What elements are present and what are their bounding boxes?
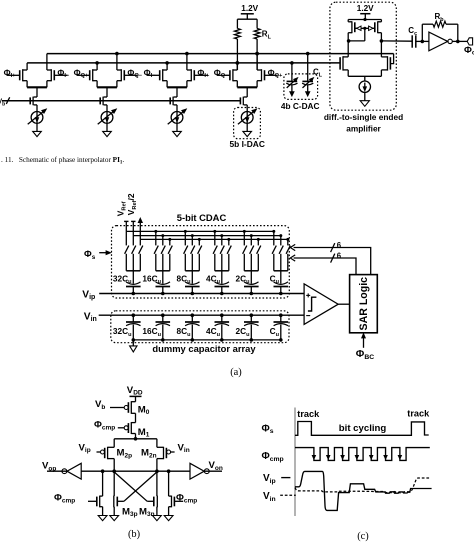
svg-text:track: track <box>407 408 430 418</box>
svg-text:ΦI+: ΦI+ <box>4 67 17 79</box>
svg-text:(b): (b) <box>128 529 140 540</box>
CDAC cell 16Cu with 3 switches and capacitor <box>154 230 172 295</box>
label 4Cu <box>206 273 221 285</box>
time axis <box>294 408 296 517</box>
dummy capacitor array dashed box <box>111 311 289 343</box>
third reference line with up arrow <box>138 218 142 239</box>
waveform Phi_cmp with sampling arrows <box>295 448 430 461</box>
svg-text:M3n: M3n <box>139 506 155 518</box>
amp output wire <box>381 40 412 42</box>
node wire V_ip <box>99 293 304 295</box>
svg-text:32Cu: 32Cu <box>113 326 132 338</box>
ground 2 <box>110 516 119 521</box>
SAR feedback wire upper (6-bit) <box>290 241 370 274</box>
label (b) <box>128 529 140 540</box>
comparator U4 <box>304 284 338 325</box>
CDAC cell 32Cu with 3 switches and capacitor <box>125 231 143 295</box>
svg-text:2Cu: 2Cu <box>235 326 250 338</box>
waveform Phi_s <box>295 422 429 436</box>
reset switch right (Phi_cmp) <box>169 471 198 515</box>
svg-text:8Cu: 8Cu <box>176 326 191 338</box>
svg-text:4Cu: 4Cu <box>206 273 221 285</box>
gate label I+ <box>4 67 17 79</box>
SAR feedback wire lower (6-bit) <box>290 252 356 275</box>
gate label Q&#8722; <box>127 67 142 79</box>
bus wire V_Ref <box>126 230 274 232</box>
label RL <box>262 30 272 41</box>
label bit cycling <box>339 423 387 434</box>
svg-text:bit cycling: bit cycling <box>339 423 387 434</box>
supply 1.2V <box>237 4 258 19</box>
output inverter right (V_on) <box>190 460 223 479</box>
bias line V_b with bus slash <box>0 97 240 107</box>
svg-text:amplifier: amplifier <box>346 124 381 134</box>
svg-text:ΦQ−: ΦQ− <box>127 67 142 79</box>
label (c) <box>357 531 369 542</box>
amp tail bar and current source <box>348 76 381 100</box>
differential pair M2 (Q+/Q&#8722;) with tail transistor and variable current source I2 <box>77 52 138 137</box>
resistor RL left <box>234 19 240 70</box>
waveform V_ip (solid) <box>295 471 432 510</box>
transistor M0 (PMOS, gate V_b) <box>95 399 150 423</box>
diff-to-single-ended amplifier dashed box <box>330 2 396 110</box>
svg-text:Φs: Φs <box>84 248 96 261</box>
svg-text:diff.-to-single ended: diff.-to-single ended <box>324 112 403 122</box>
cross-coupling wires <box>114 472 157 501</box>
svg-text:Vop: Vop <box>42 461 56 473</box>
gate label I&#8722; <box>57 67 70 79</box>
svg-text:(a): (a) <box>230 367 242 378</box>
svg-text:track: track <box>297 409 320 419</box>
label dummy capacitor array <box>152 343 256 354</box>
variable capacitor CL2 <box>302 52 314 96</box>
svg-text:Vin: Vin <box>178 442 190 454</box>
svg-text:M2p: M2p <box>117 448 133 460</box>
svg-text:SAR Logic: SAR Logic <box>358 277 370 331</box>
svg-text:4Cu: 4Cu <box>206 326 221 338</box>
Phi_BC input <box>356 333 374 361</box>
svg-text:M1: M1 <box>138 427 150 439</box>
label Cc <box>408 26 417 37</box>
figure caption <box>1 156 124 166</box>
svg-text:VRef/2: VRef/2 <box>126 193 138 215</box>
output terminal pad <box>467 38 472 45</box>
svg-text:M0: M0 <box>138 404 150 416</box>
svg-text:M2n: M2n <box>141 448 157 460</box>
svg-text:32Cu: 32Cu <box>113 273 132 285</box>
5-bit CDAC dashed box <box>112 226 290 298</box>
amp PMOS mirror right U2b <box>375 20 382 41</box>
SAR Logic box U5 <box>350 275 378 333</box>
amp supply 1.2V <box>357 4 374 21</box>
dummy capacitor 2Cu <box>244 313 259 341</box>
svg-text:1.2V: 1.2V <box>241 4 258 13</box>
bus wire V_Ref/2 <box>133 235 281 237</box>
dummy ground arrow <box>130 340 137 352</box>
reset switch left (Phi_cmp) <box>54 471 103 515</box>
variable capacitor CL1 <box>286 61 298 96</box>
amp PMOS gate bus with arrows <box>355 26 375 41</box>
amp diode-connect wire <box>347 39 365 43</box>
amp PMOS mirror left U2a <box>348 20 355 41</box>
svg-text:Φs: Φs <box>262 423 274 435</box>
svg-text:16Cu: 16Cu <box>142 326 161 338</box>
gate label I+ <box>197 67 210 79</box>
gate label Q+ <box>74 67 89 79</box>
Phi_s input arrow <box>84 248 111 261</box>
dummy label 32Cu <box>113 326 132 338</box>
label CL <box>313 68 323 79</box>
supply V_DD <box>127 385 143 402</box>
dummy label 8Cu <box>176 326 191 338</box>
gate label I&#8722; <box>144 67 157 79</box>
transistor M2n (PMOS, gate V_in) <box>141 439 190 471</box>
svg-text:6: 6 <box>337 252 342 261</box>
svg-text:dummy capacitor array: dummy capacitor array <box>152 343 256 354</box>
label Phi_cmp (waveform) <box>262 451 284 463</box>
CDAC cell 8Cu with 3 switches and capacitor <box>184 230 202 295</box>
ground 3 <box>153 516 162 521</box>
dummy label 16Cu <box>142 326 161 338</box>
svg-text:5-bit CDAC: 5-bit CDAC <box>177 212 227 223</box>
svg-text:Vip: Vip <box>82 289 95 301</box>
label Cu <box>270 273 280 285</box>
differential pair M1 (I+/I&#8722;) with tail transistor and variable current source I1 <box>7 54 68 137</box>
CDAC cell Cu with 3 switches and capacitor <box>272 230 290 295</box>
svg-text:Vb: Vb <box>0 99 5 108</box>
label 2Cu <box>235 273 250 285</box>
svg-text:5b I-DAC: 5b I-DAC <box>230 139 265 149</box>
svg-text:ΦBC: ΦBC <box>356 349 374 361</box>
amp ground <box>360 101 369 107</box>
svg-text:RL: RL <box>262 30 272 41</box>
differential pair M3 (I&#8722;/I+) with tail transistor and variable current source I3 <box>147 52 208 137</box>
amp NMOS input right <box>380 39 391 76</box>
dummy capacitor Cu <box>274 313 289 341</box>
dummy capacitor 16Cu <box>156 313 171 341</box>
label Phi_o <box>464 45 474 57</box>
gate label Q&#8722; <box>214 67 229 79</box>
svg-text:2Cu: 2Cu <box>235 273 250 285</box>
label V_ip <box>82 289 95 301</box>
comparator output wire <box>338 303 349 305</box>
svg-text:4b C-DAC: 4b C-DAC <box>281 101 320 111</box>
svg-text:. 11. Schematic of phase int: . 11. Schematic of phase interpolator PI… <box>1 156 124 166</box>
svg-text:Vb: Vb <box>95 399 105 411</box>
reference line V_Ref/2 <box>126 193 138 235</box>
svg-text:Cu: Cu <box>270 273 280 285</box>
svg-text:ΦI−: ΦI− <box>57 67 70 79</box>
svg-text:ΦQ−: ΦQ− <box>214 67 229 79</box>
dummy capacitor 32Cu <box>126 313 141 341</box>
amp NMOS input left <box>340 41 348 76</box>
svg-text:1.2V: 1.2V <box>357 4 374 13</box>
svg-text:Vin: Vin <box>84 311 97 323</box>
svg-text:16Cu: 16Cu <box>142 273 161 285</box>
label 8Cu <box>176 273 191 285</box>
svg-text:VDD: VDD <box>127 385 143 397</box>
svg-text:ΦQ+: ΦQ+ <box>74 67 89 79</box>
svg-text:Vip: Vip <box>79 442 91 454</box>
label Rb <box>435 12 445 23</box>
transistor M2p (PMOS, gate V_ip) <box>79 439 133 471</box>
label diff.-to-single ended amplifier <box>324 112 403 134</box>
feedback resistor Rb loop <box>421 21 460 43</box>
transistor M3n (NMOS cross-coupled) <box>139 471 157 518</box>
svg-text:ΦI+: ΦI+ <box>197 67 210 79</box>
inverter U3 <box>429 32 467 51</box>
svg-text:Φcmp: Φcmp <box>176 493 197 505</box>
amp right input hook from rail A <box>390 54 393 64</box>
svg-text:8Cu: 8Cu <box>176 273 191 285</box>
transistor M1 (PMOS, gate Phi_cmp) <box>94 420 150 439</box>
dummy label 4Cu <box>206 326 221 338</box>
svg-text:M3p: M3p <box>122 506 138 518</box>
5b I-DAC dashed box <box>234 108 261 139</box>
label 16Cu <box>142 273 161 285</box>
label track (right) <box>407 408 430 418</box>
label 4b C-DAC <box>281 101 320 111</box>
wire output rail B <box>27 62 340 64</box>
svg-text:ΦI−: ΦI− <box>144 67 157 79</box>
dummy bottom plate wire <box>133 339 280 341</box>
label V_ip (waveform) <box>263 473 290 485</box>
CDAC cell 4Cu with 3 switches and capacitor <box>213 230 231 295</box>
resistor RL right <box>254 19 260 70</box>
svg-text:ΦQ+: ΦQ+ <box>268 67 283 79</box>
output inverter left (V_op) <box>42 461 81 480</box>
svg-text:Φcmp: Φcmp <box>262 451 284 463</box>
gate label Q+ <box>268 67 283 79</box>
label 5-bit CDAC <box>177 212 227 223</box>
bus wire third <box>140 238 288 240</box>
wire output rail A <box>47 53 394 55</box>
svg-text:CL: CL <box>313 68 323 79</box>
differential pair M4 (Q&#8722;/Q+) with tail transistor and variable current source I4 <box>217 52 278 137</box>
label (a) <box>230 367 242 378</box>
svg-text:Von: Von <box>209 460 223 472</box>
amp PMOS source bar <box>348 19 381 21</box>
label track (left) <box>297 409 320 419</box>
svg-text:Φcmp: Φcmp <box>94 420 115 432</box>
reference line V_Ref <box>116 201 129 231</box>
label V_in <box>84 311 97 323</box>
svg-text:Cu: Cu <box>270 326 280 338</box>
ground 1 <box>98 516 107 521</box>
svg-text:Vip: Vip <box>263 473 276 485</box>
dummy label 2Cu <box>235 326 250 338</box>
common source node wire <box>114 437 157 441</box>
label Phi_s (waveform) <box>262 423 274 435</box>
4b C-DAC dashed box <box>284 74 318 100</box>
svg-text:Vin: Vin <box>263 491 276 503</box>
svg-text:(c): (c) <box>357 531 369 542</box>
label 5b I-DAC <box>230 139 265 149</box>
label 32Cu <box>113 273 132 285</box>
dummy capacitor 8Cu <box>185 313 200 341</box>
ground 4 <box>164 516 173 521</box>
dummy capacitor 4Cu <box>215 313 230 341</box>
transistor M3p (NMOS cross-coupled) <box>114 471 138 518</box>
capacitor Cc <box>412 35 429 47</box>
label V_in (waveform) <box>263 491 296 503</box>
CDAC cell 2Cu with 3 switches and capacitor <box>243 230 261 295</box>
node wire V_in <box>99 314 304 316</box>
svg-text:Φcmp: Φcmp <box>54 493 75 505</box>
svg-text:6: 6 <box>337 241 342 250</box>
dummy label Cu <box>270 326 280 338</box>
waveform V_in (dashed) <box>295 478 431 493</box>
svg-text:Φo: Φo <box>464 45 474 57</box>
output node wire <box>47 469 222 473</box>
